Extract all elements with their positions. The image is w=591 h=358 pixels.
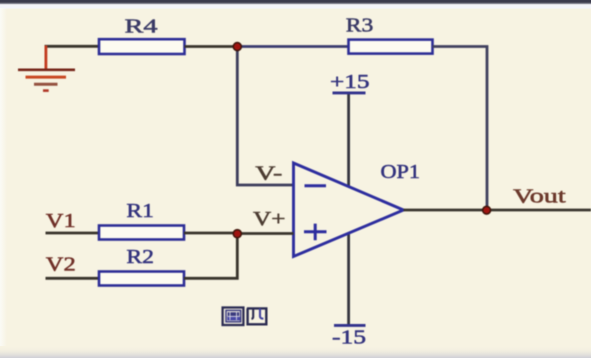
wire: V2 input [46, 277, 100, 280]
caption: character Si (four) [247, 308, 266, 324]
svg-text:V1: V1 [46, 210, 76, 232]
wire: node B to non-inverting input [237, 232, 294, 235]
node A junction dot [233, 43, 241, 51]
bottom edge fade [0, 346, 591, 358]
wire: R2 right, up to node B [184, 234, 237, 279]
svg-text:-15: -15 [332, 327, 366, 349]
resistor R4 [99, 39, 185, 54]
wire: R1 to node B [184, 232, 237, 235]
wire: V1 input [46, 232, 100, 235]
resistor R3 [349, 40, 433, 54]
svg-text:R1: R1 [126, 200, 153, 222]
-15 power bar [334, 324, 366, 327]
+15 power bar [333, 91, 366, 94]
svg-text:V2: V2 [46, 253, 76, 275]
wire: op-amp output to right edge [404, 209, 591, 212]
wire: +15 supply down to op-amp top [347, 94, 350, 187]
svg-text:V+: V+ [253, 208, 286, 230]
ground [18, 46, 75, 91]
resistor R2 [99, 272, 184, 286]
wire: node A to R3 [237, 45, 349, 48]
wire: node A down and into inverting input [237, 47, 293, 186]
wire: R4 to node A [185, 45, 238, 48]
top dark edge bar [0, 0, 591, 3]
wire: op-amp bottom down to -15 supply [347, 234, 350, 325]
svg-text:OP1: OP1 [381, 161, 421, 183]
op-amp plus input symbol [304, 224, 327, 241]
svg-text:R3: R3 [346, 15, 374, 37]
svg-text:R4: R4 [125, 16, 158, 38]
svg-text:+15: +15 [330, 71, 370, 93]
svg-text:R2: R2 [126, 246, 153, 268]
op-amp U1 triangle [294, 163, 404, 257]
wire: ground lead horizontal to R4 [45, 45, 100, 48]
svg-text:Vout: Vout [513, 186, 566, 208]
left edge light fade [0, 8, 7, 346]
svg-text:V-: V- [255, 162, 282, 184]
op-amp minus input symbol [305, 184, 327, 187]
resistor R1 [99, 226, 184, 240]
wire: R3 to feedback corner and down to output node [433, 47, 488, 211]
caption: character Tu (figure) [223, 308, 244, 326]
node B junction dot [233, 230, 241, 238]
output node junction dot [483, 206, 491, 214]
